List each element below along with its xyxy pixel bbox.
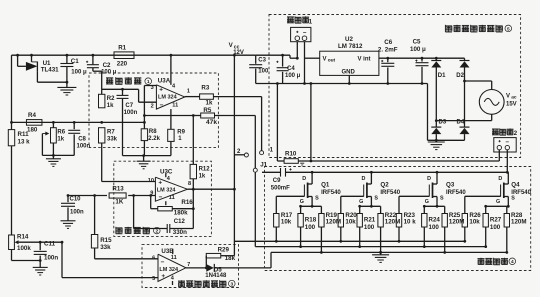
node C12 pin9 junction [132, 194, 135, 197]
node R16 pin9 junction [149, 194, 152, 197]
wire gnd link R8R9 [123, 155, 171, 157]
label hengya-dianlu 1 (Chinese) [106, 78, 113, 85]
resistor R10 [277, 160, 284, 162]
wire R16 left riser [151, 208, 158, 210]
svg-text:GND: GND [342, 70, 356, 76]
svg-text:R29: R29 [218, 246, 230, 253]
svg-text:1N4148: 1N4148 [205, 273, 227, 279]
svg-text:330n: 330n [173, 229, 187, 236]
svg-text:R8: R8 [149, 129, 157, 135]
diode D3 [431, 126, 441, 128]
resistor R27 [485, 206, 487, 213]
wire R14 bottom [11, 250, 13, 261]
wire U2 gnd drop [348, 75, 350, 83]
svg-text:Q3: Q3 [446, 181, 455, 188]
wire meter2 left lead [498, 150, 500, 161]
resistor R18 [300, 206, 302, 213]
node C1 bottom junction [66, 81, 69, 84]
wire R17 bottom [275, 227, 277, 241]
svg-text:Q2: Q2 [380, 181, 389, 188]
svg-text:3: 3 [230, 282, 233, 288]
wire U3B pin4 stub [172, 281, 174, 285]
svg-text:IRF540: IRF540 [380, 190, 400, 196]
node AC top tap [463, 80, 466, 83]
node R8 top junction [143, 121, 146, 124]
wire R5 to J1 [215, 115, 256, 117]
node C1 top junction [66, 54, 69, 57]
svg-text:33k: 33k [100, 244, 111, 251]
resistor R23 [396, 214, 401, 228]
ground below C11 [39, 261, 41, 268]
svg-text:100n: 100n [44, 255, 58, 262]
svg-text:1: 1 [147, 79, 150, 85]
capacitor C5 [421, 58, 423, 61]
wire R3 to terminal 1 [213, 96, 261, 98]
svg-text:100: 100 [305, 224, 316, 231]
svg-text:D4: D4 [457, 120, 465, 126]
wire Q2 source link [360, 205, 381, 207]
svg-text:R10: R10 [285, 151, 297, 158]
node meter2 drain junction [506, 171, 509, 174]
svg-text:−: − [160, 102, 164, 109]
svg-text:2. 2mF: 2. 2mF [378, 47, 398, 54]
svg-text:100 μ: 100 μ [285, 73, 301, 79]
wire R24 bottom [423, 227, 425, 247]
label celiang-dianyuan-yuanlitu 5 (Chinese) [445, 25, 452, 32]
svg-text:R1: R1 [118, 45, 126, 52]
wire R6 bottom stub [52, 143, 54, 155]
svg-text:G: G [359, 199, 363, 205]
wire U3A pin4 Vcc drop [170, 55, 172, 85]
wire pin3 feed vertical [143, 86, 145, 123]
wire Q1 source link [301, 205, 322, 207]
terminal 1 circle [260, 151, 264, 155]
wire U3B out riser to bus3 [270, 252, 272, 268]
dashed box constant-voltage circuit 1 [89, 73, 218, 148]
svg-text:1K: 1K [115, 199, 123, 206]
svg-text:6: 6 [152, 255, 155, 261]
ground rail of PSU [256, 83, 428, 85]
svg-text:ac: ac [511, 96, 517, 101]
wire D5 cathode out [214, 267, 271, 269]
svg-text:R16: R16 [181, 199, 193, 206]
svg-text:R6: R6 [57, 129, 65, 135]
svg-text:LM 324: LM 324 [158, 95, 178, 101]
node R6 top junction [52, 121, 55, 124]
node C7 top junction [121, 88, 124, 91]
wire U3A pin11 to R9 [170, 109, 172, 129]
diode D2 [464, 58, 466, 60]
wire R28 bottom [506, 227, 508, 252]
svg-text:R15: R15 [100, 237, 112, 244]
wire R7 bottom to pin10 [101, 143, 103, 182]
capacitor C2 [92, 55, 94, 64]
svg-text:10k: 10k [345, 219, 356, 226]
label guoliu-baohu-dianlu 3 (Chinese) [178, 281, 185, 288]
node R8 gnd junction [142, 154, 145, 157]
wire Q1 gate lead [276, 195, 304, 197]
svg-text:8: 8 [188, 181, 191, 187]
wire U1 cathode down [36, 71, 38, 82]
capacitor C4 [282, 55, 284, 66]
wire Q4 gate lead [465, 195, 501, 197]
node R16 out junction [192, 207, 195, 210]
svg-text:33k: 33k [107, 136, 118, 142]
resistor R5 [201, 113, 215, 118]
wire R16 right riser [172, 208, 193, 210]
ground of drive circuit [380, 252, 382, 254]
wire R25 bottom [444, 227, 446, 252]
svg-text:S: S [315, 196, 319, 202]
terminal J1 circle [253, 168, 257, 172]
wire left bus lower [11, 146, 13, 235]
svg-text:2: 2 [514, 131, 518, 137]
svg-text:11: 11 [171, 255, 177, 261]
svg-text:R11: R11 [18, 131, 30, 138]
wire R15 column [94, 196, 96, 235]
svg-text:R27: R27 [490, 217, 502, 224]
capacitor C3 branch [255, 55, 257, 64]
resistor R15 [91, 235, 97, 249]
svg-text:V int: V int [358, 56, 371, 62]
svg-text:2: 2 [155, 229, 158, 235]
wire U3B output [186, 267, 206, 269]
wire source bus L2 [255, 246, 485, 248]
wire meter1 left lead [296, 42, 298, 59]
wire R8 bottom stub [143, 141, 145, 156]
node meter1 rail junction [296, 57, 299, 60]
node rail-U1 anode junction [16, 54, 19, 57]
node C5 top junction [421, 57, 424, 60]
svg-text:13 k: 13 k [18, 139, 31, 146]
wire R26 bottom [464, 227, 466, 241]
transistor Q3 IRF540 [436, 172, 438, 184]
shunt regulator U1 TL431 [26, 62, 38, 71]
ground below C10 [61, 220, 76, 222]
wire R18 bottom [300, 227, 302, 247]
multimeter 1 box [291, 27, 311, 41]
svg-text:500mF: 500mF [271, 186, 290, 192]
wire R22 bottom [380, 227, 382, 252]
svg-text:4: 4 [171, 276, 175, 282]
svg-text:C5: C5 [413, 39, 421, 46]
svg-text:1k: 1k [57, 136, 64, 142]
potentiometer R6 [52, 122, 54, 127]
svg-text:R14: R14 [17, 234, 29, 241]
svg-text:4: 4 [511, 259, 514, 265]
svg-text:TL431: TL431 [41, 67, 59, 74]
svg-text:D: D [302, 176, 306, 182]
label hengliu-dianlu 2 (Chinese) [116, 227, 123, 234]
AC source Vac [479, 90, 504, 115]
resistor R21 [359, 206, 361, 213]
svg-text:D: D [427, 176, 431, 182]
wire R21 bottom [359, 227, 361, 247]
svg-text:Q1: Q1 [321, 181, 330, 188]
svg-text:100n: 100n [70, 209, 84, 215]
resistor R1 [114, 52, 134, 59]
svg-text:R21: R21 [364, 217, 376, 224]
wire rail to U2 [305, 57, 320, 59]
svg-text:C1: C1 [71, 58, 79, 65]
node rail-U1 ref junction [30, 54, 33, 57]
node R10 gnd junction [276, 82, 279, 85]
svg-text:+: + [159, 87, 163, 94]
node output drain-feed junction [310, 160, 313, 163]
resistor R22 [380, 206, 382, 213]
svg-text:R7: R7 [107, 129, 115, 135]
svg-text:C11: C11 [44, 240, 56, 247]
svg-text:−: − [303, 29, 307, 36]
wire drain bus [286, 171, 509, 173]
wire output line [298, 160, 499, 162]
resistor R7 [99, 128, 105, 143]
svg-text:1: 1 [309, 19, 313, 25]
wire Q4 source link [486, 205, 509, 207]
multimeter 2 box [494, 138, 516, 152]
wire R5 net [144, 115, 193, 117]
node U3C out junction [192, 188, 195, 191]
wire protect bus L3 [271, 251, 507, 253]
svg-text:+: + [161, 273, 165, 280]
wire meter1 right lead [304, 42, 306, 84]
wire R29 left drop [205, 256, 207, 268]
node C11 top junction [39, 241, 42, 244]
wire R15 to pin6 [94, 248, 96, 259]
wire Q3 gate lead [399, 195, 429, 197]
op-amp U3B [158, 254, 186, 281]
node pin4 rail junction [170, 54, 173, 57]
svg-text:100: 100 [364, 224, 375, 231]
wire U1 ref drop [31, 55, 33, 62]
wire U2 Vint rail [379, 57, 465, 59]
transistor Q4 IRF540 [507, 172, 509, 184]
svg-text:U3C: U3C [160, 168, 173, 175]
wire C12 left riser [133, 196, 135, 229]
svg-text:1: 1 [187, 89, 190, 95]
wire U3C pin11 stub [165, 201, 167, 205]
wire J1 load drop [254, 172, 256, 246]
wire R23 bottom [398, 227, 400, 241]
resistor R28 [506, 206, 508, 213]
svg-text:120M: 120M [326, 219, 341, 226]
wire wiper to pin5 [61, 242, 63, 277]
wire rail to C4 [256, 54, 290, 56]
svg-text:4: 4 [167, 176, 171, 182]
svg-text:1: 1 [178, 136, 182, 142]
terminal 2 circle [244, 153, 248, 157]
resistor R11 [8, 130, 14, 146]
svg-text:1k: 1k [206, 100, 213, 107]
svg-text:180: 180 [27, 126, 38, 133]
capacitor C12 [134, 228, 168, 230]
node R12 feed junction [192, 114, 195, 117]
svg-text:100 μ: 100 μ [71, 70, 87, 76]
node drain feed gnd junction [310, 82, 313, 85]
node R15 column junction [93, 194, 96, 197]
op-amp U3C [155, 177, 187, 201]
wire R29 right link [221, 255, 235, 257]
svg-text:J1: J1 [260, 162, 267, 169]
wire bridge bottom [435, 134, 437, 140]
resistor R2 [99, 94, 105, 108]
svg-text:D3: D3 [439, 120, 447, 126]
svg-text:2.2k: 2.2k [148, 136, 160, 142]
wire D2-D4 link [464, 68, 466, 128]
capacitor C11 [39, 242, 41, 250]
wire Q2 gate lead [341, 195, 364, 197]
wire gate bus L1 [234, 240, 464, 242]
dashed box constant-current circuit 2 [114, 161, 212, 236]
dashed box overcurrent protection 3 [142, 245, 239, 288]
svg-text:220: 220 [117, 60, 128, 67]
node C6 top junction [386, 57, 389, 60]
node bridge gnd junction [435, 139, 438, 142]
svg-text:U2: U2 [345, 36, 353, 43]
node drive gnd junction [379, 251, 382, 254]
resistor R17 [274, 214, 279, 228]
svg-text:120M: 120M [511, 219, 526, 226]
node left bus R4 junction [10, 121, 13, 124]
svg-text:2: 2 [237, 149, 241, 155]
node C5 bottom junction [421, 82, 424, 85]
svg-text:C10: C10 [70, 196, 82, 202]
wire R2top-C7-pin2 net [102, 88, 139, 90]
capacitor C1 [66, 55, 68, 63]
dashed box measurement PSU 5 [269, 15, 521, 158]
svg-text:100 μ: 100 μ [410, 46, 426, 53]
svg-text:V: V [506, 93, 510, 99]
svg-text:R3: R3 [201, 85, 209, 92]
node R5 tap junction [143, 114, 146, 117]
transistor Q2 IRF540 [370, 172, 372, 184]
svg-text:IRF540: IRF540 [446, 190, 466, 196]
diode D1 [435, 58, 437, 60]
resistor R3 [200, 94, 214, 99]
node U2 gnd junction [348, 82, 351, 85]
svg-text:V: V [323, 56, 327, 62]
wire AC top lead [465, 80, 492, 82]
wire R2 top stub [101, 89, 103, 94]
node D5 anode junction [205, 267, 208, 270]
svg-text:IRF540: IRF540 [321, 190, 341, 196]
capacitor C7 [122, 89, 124, 95]
wire pin9 net [67, 195, 107, 197]
svg-text:R4: R4 [28, 112, 36, 119]
node C6 bottom junction [386, 82, 389, 85]
wire R12 top riser [192, 116, 194, 165]
node meter1 gnd junction [303, 82, 306, 85]
wire meter2 right lead [506, 150, 508, 173]
wire R6 wiper loop [41, 134, 43, 156]
resistor R25 [444, 206, 446, 213]
node wiper corner junction [61, 241, 64, 244]
wire divider rail R4 net [12, 121, 145, 123]
dashed box drive circuit 4 [265, 167, 531, 271]
svg-text:10 k: 10 k [404, 219, 417, 226]
svg-text:1k: 1k [107, 103, 114, 109]
svg-text:100: 100 [258, 69, 269, 75]
node R6 gnd junction [52, 154, 55, 157]
resistor R24 [423, 206, 425, 213]
resistor R13 [109, 193, 126, 198]
svg-text:−: − [159, 194, 163, 201]
svg-text:C2: C2 [103, 62, 111, 69]
svg-text:15V: 15V [506, 101, 517, 107]
regulator U2 LM7812 box [320, 51, 379, 75]
svg-text:G: G [496, 199, 500, 205]
ground below C1 [66, 82, 68, 87]
svg-text:R24: R24 [429, 217, 441, 224]
svg-text:C4: C4 [287, 66, 295, 72]
svg-text:180k: 180k [174, 210, 188, 217]
svg-text:R18: R18 [305, 217, 317, 224]
svg-text:10: 10 [148, 178, 154, 184]
wire R19 bottom [320, 227, 322, 252]
svg-text:C6: C6 [384, 39, 392, 46]
node AC bottom tap [435, 119, 438, 122]
svg-text:100: 100 [429, 224, 440, 231]
svg-text:R2: R2 [107, 96, 115, 102]
wire R27 bottom [485, 227, 487, 247]
capacitor C8 [73, 122, 75, 129]
diode D4 [460, 126, 470, 128]
node D1 top junction [435, 57, 438, 60]
svg-text:LM 7812: LM 7812 [338, 43, 363, 50]
wire U3C pin4 stub [165, 174, 167, 178]
wire Q3 source link [424, 205, 444, 207]
svg-text:R9: R9 [177, 129, 185, 135]
ground below R8 [143, 156, 145, 161]
diode D5 1N4148 [206, 264, 214, 272]
svg-text:U3A: U3A [158, 78, 171, 85]
multimeter 2 label (Chinese) [492, 129, 499, 136]
resistor R4 [26, 120, 42, 126]
wire U3B pin11 stub [172, 249, 174, 255]
node gate bus tap [233, 188, 236, 191]
wire R9 bottom stub [170, 141, 172, 155]
svg-text:−: − [505, 139, 509, 146]
svg-text:G: G [300, 199, 304, 205]
svg-text:S: S [374, 196, 378, 202]
op-amp U3A [156, 85, 184, 109]
node C4 top junction [281, 54, 284, 57]
svg-text:C3: C3 [258, 57, 266, 63]
resistor R12 [190, 164, 196, 178]
wire gnd to R10 drop [276, 84, 278, 162]
svg-text:D: D [498, 176, 502, 182]
svg-text:4: 4 [172, 84, 176, 90]
wire left vertical bus [11, 55, 13, 129]
wire terminal2 stub [234, 154, 244, 156]
svg-text:R12: R12 [199, 167, 211, 173]
resistor R29 [206, 253, 221, 258]
resistor R16 [158, 207, 173, 211]
node C10 junction [67, 194, 70, 197]
svg-text:1k: 1k [199, 174, 206, 180]
wire U3A output [185, 96, 200, 98]
node C11 bottom junction [39, 259, 42, 262]
svg-text:D1: D1 [438, 73, 446, 79]
svg-text:S: S [440, 196, 444, 202]
wire rail jog [289, 55, 291, 58]
multimeter 1 label (Chinese) [287, 17, 294, 24]
resistor R26 [462, 214, 467, 228]
wire main +12V rail [12, 54, 256, 56]
svg-text:3: 3 [151, 85, 154, 91]
svg-text:100n: 100n [77, 143, 91, 149]
svg-text:C8: C8 [78, 137, 86, 143]
